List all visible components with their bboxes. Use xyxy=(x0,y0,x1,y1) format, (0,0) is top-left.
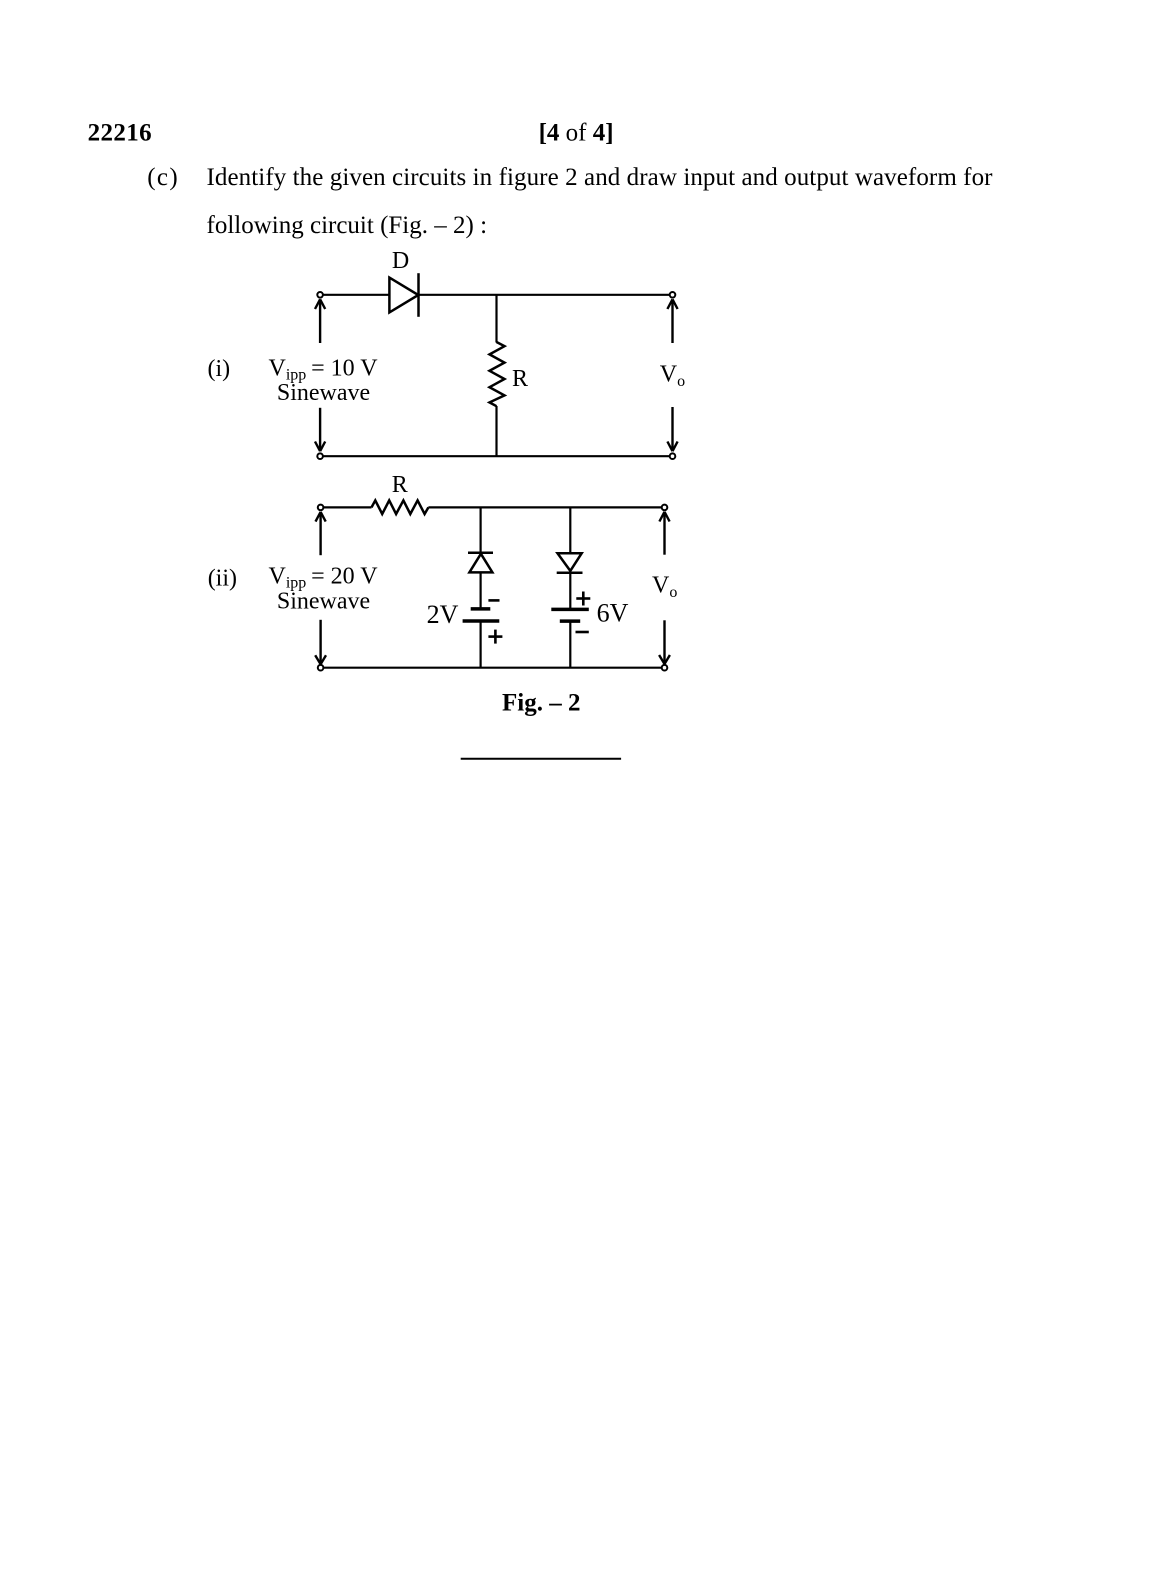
svg-text:Sinewave: Sinewave xyxy=(277,589,370,615)
battery 2V negative plate (short, top) xyxy=(471,607,491,611)
svg-text:6V: 6V xyxy=(597,599,629,628)
output up arrow (ii) xyxy=(659,512,669,555)
svg-text:Vipp = 20 V: Vipp = 20 V xyxy=(269,564,379,592)
plus sign battery 2V xyxy=(488,630,502,644)
input up arrow (ii) xyxy=(316,512,326,555)
input up arrow (i) xyxy=(315,299,325,343)
diode D2 (down) triangle xyxy=(558,553,582,571)
svg-text:R: R xyxy=(512,366,528,392)
output terminal bottom-right (ii) xyxy=(662,665,668,671)
input terminal bottom-left (ii) xyxy=(318,665,324,671)
svg-text:Fig. – 2: Fig. – 2 xyxy=(502,690,580,717)
input down arrow (ii) xyxy=(315,620,326,664)
end-of-paper rule xyxy=(461,758,621,760)
wire battery 6V to bottom (branch 2) xyxy=(569,621,571,668)
wire battery 2V to bottom (branch 1) xyxy=(480,621,482,668)
wire resistor bottom leg xyxy=(495,406,497,456)
output up arrow (i) xyxy=(667,299,677,343)
output terminal bottom-right (i) xyxy=(670,453,676,459)
branch 2 top wire xyxy=(569,507,571,553)
minus sign battery 2V xyxy=(488,599,499,602)
diode D1 (up) triangle xyxy=(469,554,492,573)
input down arrow (i) xyxy=(315,408,325,451)
input terminal bottom-left (i) xyxy=(317,453,323,459)
svg-text:[4 of 4]: [4 of 4] xyxy=(539,120,614,147)
output terminal top-right (i) xyxy=(670,292,676,298)
svg-text:D: D xyxy=(392,248,409,274)
svg-text:Sinewave: Sinewave xyxy=(277,380,370,406)
svg-text:Identify the given circuits in: Identify the given circuits in figure 2 … xyxy=(207,164,994,191)
svg-text:Vo: Vo xyxy=(652,572,677,601)
input terminal top-left (i) xyxy=(317,292,323,298)
svg-text:(c): (c) xyxy=(147,164,178,191)
svg-text:following circuit (Fig. – 2) :: following circuit (Fig. – 2) : xyxy=(207,212,488,239)
svg-text:2V: 2V xyxy=(427,600,459,629)
wire top-left to resistor (ii) xyxy=(324,506,372,508)
bottom wire (i) xyxy=(323,455,669,457)
output down arrow (ii) xyxy=(659,620,670,664)
svg-text:(i): (i) xyxy=(208,356,231,382)
wire diode cathode to top-right terminal xyxy=(419,294,670,296)
battery 2V positive plate (long, bottom) xyxy=(463,619,500,623)
wire diode D2 to battery 6V xyxy=(569,573,571,610)
svg-text:22216: 22216 xyxy=(88,120,152,147)
minus sign battery 6V xyxy=(576,631,589,634)
wire resistor top leg xyxy=(495,295,497,343)
svg-text:R: R xyxy=(392,472,408,498)
svg-text:(ii): (ii) xyxy=(208,566,237,592)
resistor R shunt (i) xyxy=(490,342,505,406)
battery 6V negative plate (short, bottom) xyxy=(560,619,580,623)
battery 6V positive plate (long, top) xyxy=(551,608,589,612)
wire resistor to top-right terminal (ii) xyxy=(428,506,661,508)
svg-text:Vo: Vo xyxy=(660,362,685,391)
output terminal top-right (ii) xyxy=(662,505,668,511)
diode D1 (up) cathode bar xyxy=(468,552,493,555)
diode D xyxy=(389,273,418,317)
input terminal top-left (ii) xyxy=(318,505,324,511)
output down arrow (i) xyxy=(667,407,677,451)
plus sign battery 6V xyxy=(576,592,590,606)
diode D2 (down) cathode bar xyxy=(557,571,583,574)
wire diode D1 to battery 2V xyxy=(480,572,482,609)
branch 1 top wire xyxy=(480,507,482,552)
wire top-left to diode anode xyxy=(323,294,389,296)
resistor R series (ii) xyxy=(372,500,429,514)
bottom wire (ii) xyxy=(324,667,662,669)
